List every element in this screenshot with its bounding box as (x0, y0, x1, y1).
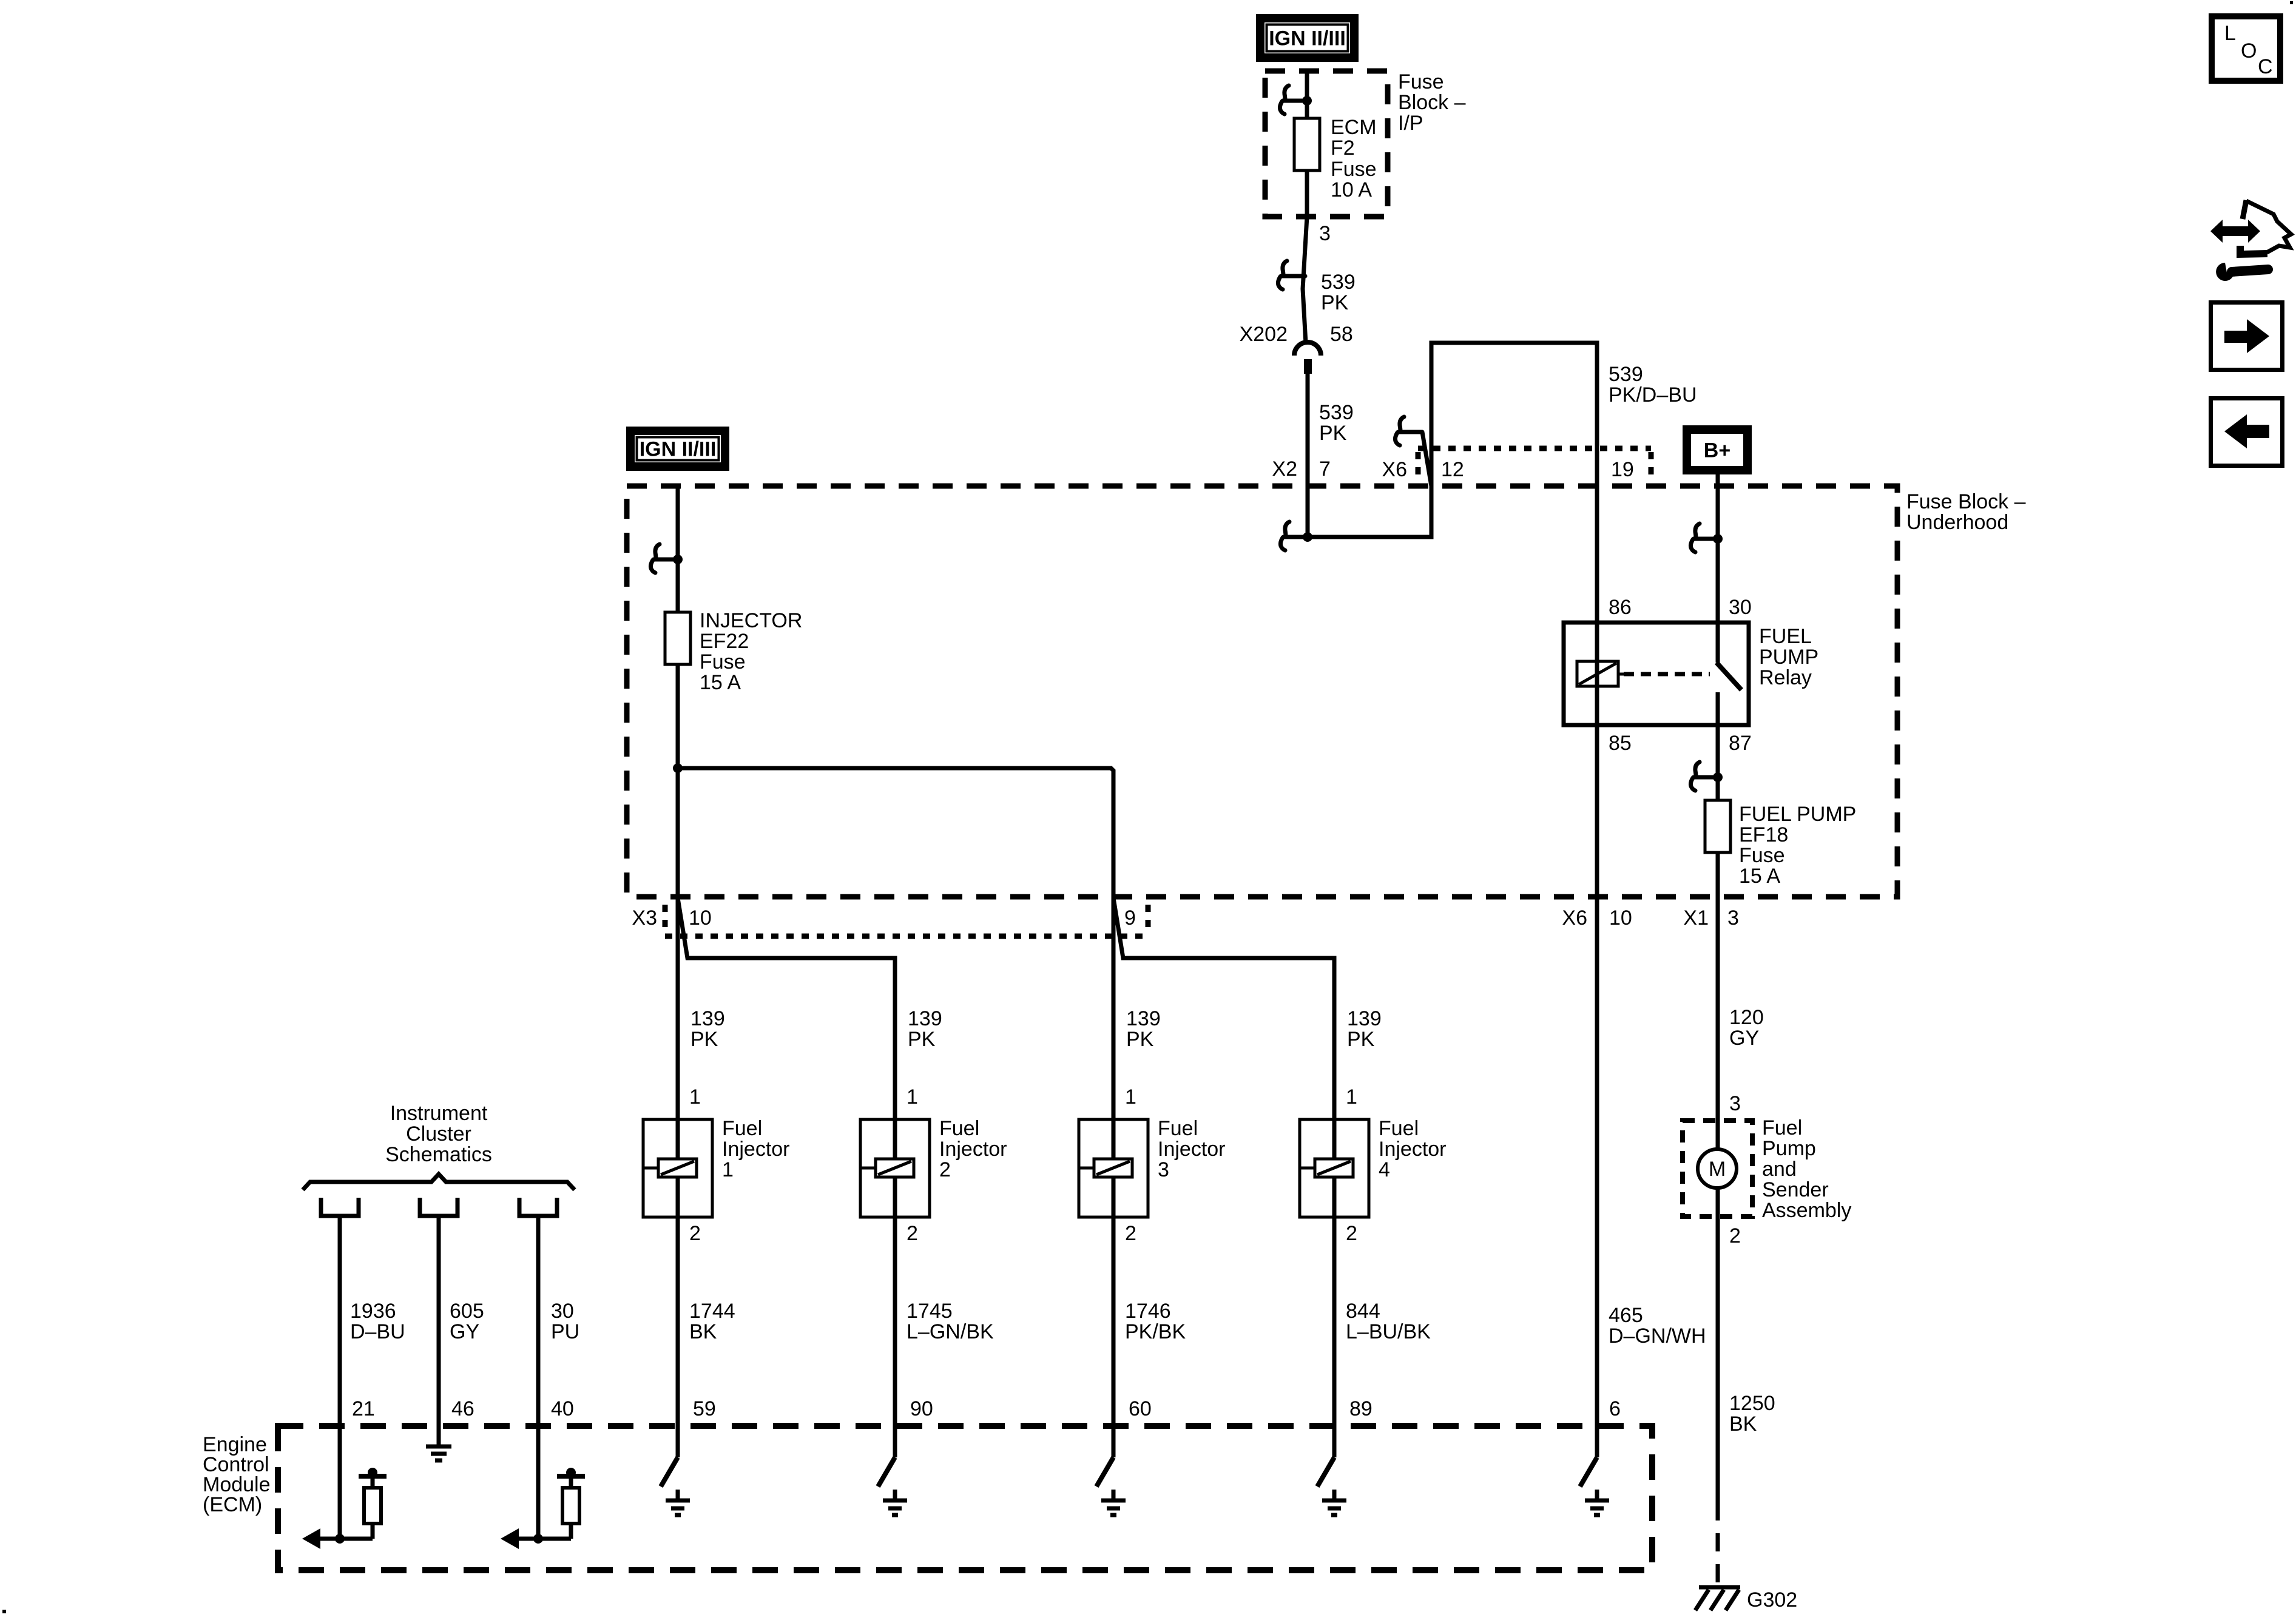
fuel injector 3 (1079, 1119, 1148, 1217)
svg-text:Fuse: Fuse (1331, 158, 1377, 181)
ground G302 (chassis) (1699, 1585, 1740, 1590)
terminal 3 to instrument cluster (519, 1198, 557, 1216)
wire X202 to junction (1306, 374, 1310, 539)
wire injector fuse down to X3 pin 10 and injector 1 (676, 664, 680, 1119)
svg-text:87: 87 (1729, 732, 1752, 755)
wire injector 1 to ECM (676, 1217, 680, 1457)
svg-text:IGN II/III: IGN II/III (1269, 27, 1346, 50)
svg-text:EF22: EF22 (700, 630, 749, 653)
svg-text:Instrument: Instrument (390, 1102, 488, 1125)
clip at injector fuse (650, 544, 678, 573)
svg-text:FUEL: FUEL (1759, 625, 1812, 648)
svg-text:GY: GY (1729, 1027, 1759, 1050)
svg-text:Fuel: Fuel (722, 1117, 762, 1140)
relay FUEL PUMP Relay box (1564, 623, 1749, 725)
svg-text:90: 90 (910, 1397, 933, 1420)
fuel injector 2 (860, 1119, 930, 1217)
wire into ECM with pull-up resistor and arrow (338, 1216, 342, 1539)
svg-text:139: 139 (1347, 1007, 1382, 1030)
svg-text:10 A: 10 A (1331, 178, 1372, 201)
svg-text:O: O (2241, 39, 2257, 62)
Fuse Block - I/P dashed box (1265, 71, 1388, 217)
svg-text:Fuse Block –: Fuse Block – (1906, 490, 2026, 513)
svg-text:FUEL PUMP: FUEL PUMP (1739, 803, 1856, 826)
wire injector 3 to ECM (1112, 1217, 1116, 1457)
power feed box IGN II/III (top) (1260, 18, 1354, 58)
svg-text:D–BU: D–BU (350, 1320, 405, 1343)
svg-text:30: 30 (551, 1300, 574, 1323)
wire relay 87 to fuse EF18 (1716, 725, 1720, 804)
svg-text:58: 58 (1330, 323, 1353, 346)
svg-text:7: 7 (1319, 457, 1331, 481)
svg-text:10: 10 (1609, 906, 1632, 930)
svg-text:9: 9 (1124, 906, 1136, 930)
svg-text:ECM: ECM (1331, 116, 1377, 139)
switch blade to ground (injector 1 driver) (661, 1457, 678, 1487)
wire relay 85 to ECM pin 6 (1595, 725, 1599, 1457)
svg-text:EF18: EF18 (1739, 823, 1788, 846)
relay coil (1577, 661, 1618, 686)
svg-text:and: and (1762, 1158, 1797, 1181)
fuse INJECTOR EF22 15A (665, 612, 690, 664)
svg-text:X6: X6 (1382, 458, 1407, 481)
ground (injector 1 low side) (676, 1490, 680, 1500)
wire fuse EF18 to fuel pump (1716, 852, 1720, 1149)
svg-text:40: 40 (551, 1397, 574, 1420)
svg-text:2: 2 (689, 1222, 701, 1245)
scan speck bottom-left (2, 1610, 6, 1613)
wire branch to X3 pin 9 (678, 768, 1113, 1119)
svg-text:1746: 1746 (1125, 1300, 1171, 1323)
connector X202 pin 58 (1294, 342, 1321, 356)
terminal 1 to instrument cluster (321, 1198, 359, 1216)
svg-text:30: 30 (1729, 596, 1752, 619)
clip on 87 wire (1690, 762, 1718, 791)
svg-text:L–GN/BK: L–GN/BK (907, 1320, 994, 1343)
relay actuation dashed link (1624, 672, 1710, 677)
svg-text:Injector: Injector (722, 1138, 790, 1161)
svg-text:46: 46 (451, 1397, 474, 1420)
svg-text:89: 89 (1349, 1397, 1373, 1420)
switch blade to ground (injector 2 driver) (878, 1457, 895, 1487)
relay switch blade (1717, 663, 1741, 690)
wire injector 2 to ECM (893, 1217, 897, 1457)
svg-text:C: C (2258, 55, 2273, 78)
svg-text:Fuel: Fuel (1379, 1117, 1419, 1140)
svg-text:3: 3 (1729, 1092, 1741, 1115)
Engine Control Module dashed box (278, 1426, 1652, 1570)
svg-text:Cluster: Cluster (406, 1122, 471, 1146)
svg-text:21: 21 (352, 1397, 375, 1420)
power feed box IGN II/III (left) (630, 431, 725, 467)
svg-text:BK: BK (1729, 1412, 1757, 1436)
svg-text:3: 3 (1158, 1158, 1169, 1181)
svg-text:2: 2 (907, 1222, 918, 1245)
svg-text:Fuel: Fuel (939, 1117, 979, 1140)
svg-text:139: 139 (690, 1007, 725, 1030)
connector X3 dotted line (665, 934, 1148, 939)
svg-text:F2: F2 (1331, 137, 1355, 160)
wire branch pin9 to injector 4 (1113, 898, 1334, 1119)
wire B+ to relay pin 30 (1716, 474, 1720, 623)
svg-text:INJECTOR: INJECTOR (700, 609, 802, 632)
svg-text:139: 139 (908, 1007, 942, 1030)
svg-text:Sender: Sender (1762, 1178, 1829, 1201)
svg-text:120: 120 (1729, 1006, 1764, 1029)
dashed wire to G302 (1716, 1502, 1720, 1587)
svg-text:X3: X3 (632, 906, 657, 930)
svg-text:1745: 1745 (907, 1300, 953, 1323)
svg-text:1: 1 (689, 1085, 701, 1109)
svg-text:1250: 1250 (1729, 1392, 1775, 1415)
switch blade to ground (injector 4 driver) (1317, 1457, 1334, 1487)
LOC icon box (2212, 16, 2280, 81)
svg-text:PK: PK (908, 1028, 936, 1051)
svg-text:1744: 1744 (689, 1300, 735, 1323)
svg-text:(ECM): (ECM) (203, 1493, 262, 1516)
connector X6 dotted line (pins 12, 19) (1418, 446, 1651, 451)
svg-text:60: 60 (1129, 1397, 1152, 1420)
svg-text:15 A: 15 A (700, 671, 741, 694)
svg-text:139: 139 (1126, 1007, 1161, 1030)
svg-text:85: 85 (1609, 732, 1632, 755)
ground (injector 3 low side) (1112, 1490, 1116, 1500)
svg-text:844: 844 (1346, 1300, 1380, 1323)
svg-text:Fuel: Fuel (1762, 1116, 1802, 1139)
svg-text:2: 2 (1125, 1222, 1136, 1245)
svg-text:PK/BK: PK/BK (1125, 1320, 1186, 1343)
svg-text:PK: PK (1126, 1028, 1154, 1051)
Fuse Block - Underhood dashed box (627, 486, 1897, 897)
wire into ECM with pull-up resistor and arrow (536, 1216, 541, 1539)
ground (pin 6 low side) (1595, 1490, 1599, 1500)
svg-text:L: L (2224, 22, 2236, 45)
svg-text:1: 1 (907, 1085, 918, 1109)
switch blade to ground (injector 3 driver) (1096, 1457, 1113, 1487)
resistor (569, 1524, 573, 1539)
wire IGN to injector fuse (676, 484, 680, 612)
svg-text:Fuse: Fuse (1398, 70, 1444, 93)
svg-text:3: 3 (1727, 906, 1739, 930)
svg-text:M: M (1709, 1158, 1726, 1181)
svg-text:4: 4 (1379, 1158, 1390, 1181)
svg-text:X1: X1 (1683, 906, 1709, 930)
clip at X6 pin 12 (1395, 417, 1422, 445)
fuel injector 4 (1300, 1119, 1369, 1217)
power feed box B+ (1687, 430, 1747, 470)
switch blade to ground (fuel pump driver) (1580, 1457, 1597, 1487)
clip at junction (1280, 522, 1308, 550)
svg-text:2: 2 (939, 1158, 951, 1181)
svg-text:Fuel: Fuel (1158, 1117, 1198, 1140)
clip on wire 539 PK (1278, 261, 1305, 289)
fuse ECM F2 10A (1294, 118, 1320, 170)
wire into X6 pin 12 (1422, 432, 1431, 486)
svg-text:X6: X6 (1562, 906, 1587, 930)
svg-text:B+: B+ (1704, 439, 1730, 462)
ground (pin 46) (437, 1426, 441, 1446)
svg-text:Schematics: Schematics (385, 1143, 492, 1166)
motor M circle (1698, 1149, 1737, 1188)
svg-text:1936: 1936 (350, 1300, 396, 1323)
svg-text:L–BU/BK: L–BU/BK (1346, 1320, 1431, 1343)
svg-text:PK: PK (1347, 1028, 1375, 1051)
svg-text:539: 539 (1321, 271, 1356, 294)
junction dot (1302, 96, 1312, 106)
svg-text:Fuse: Fuse (700, 650, 746, 673)
relay coil wire through (1595, 623, 1599, 725)
resistor (371, 1524, 375, 1539)
fuel injector 1 (643, 1119, 712, 1217)
svg-text:BK: BK (689, 1320, 717, 1343)
svg-text:X202: X202 (1240, 323, 1288, 346)
wire branch pin10 to injector 2 (678, 898, 895, 1119)
ground (injector 2 low side) (893, 1490, 897, 1500)
svg-text:GY: GY (450, 1320, 479, 1343)
svg-text:2: 2 (1346, 1222, 1357, 1245)
wire loop to relay coil (1308, 343, 1597, 623)
clip on B+ wire (1690, 524, 1718, 552)
svg-text:Injector: Injector (1158, 1138, 1226, 1161)
svg-text:Fuse: Fuse (1739, 844, 1785, 867)
back arrow icon (2211, 399, 2283, 466)
clip at fuse F2 input (1280, 86, 1307, 114)
forward arrow icon (2211, 303, 2283, 370)
tool/arrow icon (2210, 200, 2291, 281)
ground (injector 4 low side) (1332, 1490, 1337, 1500)
terminal 2 to instrument cluster (420, 1198, 458, 1216)
svg-text:G302: G302 (1747, 1588, 1797, 1612)
brace (303, 1174, 575, 1190)
svg-text:PK/D–BU: PK/D–BU (1609, 383, 1697, 407)
svg-text:1: 1 (722, 1158, 734, 1181)
wire injector 4 to ECM (1332, 1217, 1337, 1457)
svg-text:2: 2 (1729, 1224, 1741, 1247)
svg-text:1: 1 (1125, 1085, 1136, 1109)
svg-text:6: 6 (1609, 1397, 1621, 1420)
Fuel Pump and Sender Assembly dashed box (1683, 1121, 1752, 1217)
svg-text:PU: PU (551, 1320, 579, 1343)
svg-text:PUMP: PUMP (1759, 646, 1818, 669)
svg-text:19: 19 (1611, 458, 1634, 481)
fuse FUEL PUMP EF18 15A (1705, 800, 1730, 852)
svg-text:15 A: 15 A (1739, 865, 1780, 888)
svg-text:3: 3 (1319, 222, 1331, 245)
svg-text:1: 1 (1346, 1085, 1357, 1109)
svg-text:539: 539 (1319, 401, 1354, 424)
svg-text:PK: PK (690, 1028, 718, 1051)
svg-text:Block –: Block – (1398, 91, 1466, 114)
svg-text:59: 59 (693, 1397, 716, 1420)
svg-text:PK: PK (1321, 291, 1349, 314)
wire IGN to fuse F2 (1305, 71, 1309, 118)
svg-text:Injector: Injector (939, 1138, 1007, 1161)
svg-text:IGN II/III: IGN II/III (640, 438, 717, 461)
svg-text:Assembly: Assembly (1762, 1199, 1851, 1222)
svg-text:10: 10 (689, 906, 712, 930)
svg-text:12: 12 (1441, 458, 1464, 481)
wire fuel pump to G302 (1716, 1188, 1720, 1502)
svg-text:Pump: Pump (1762, 1137, 1816, 1160)
wire fuse F2 to X202, pin 3 (1303, 170, 1307, 343)
scan speck top-right (2290, 1, 2293, 4)
svg-text:Relay: Relay (1759, 666, 1812, 689)
svg-text:Injector: Injector (1379, 1138, 1447, 1161)
junction dot (673, 763, 683, 773)
svg-text:I/P: I/P (1398, 112, 1423, 135)
svg-text:86: 86 (1609, 596, 1632, 619)
svg-text:539: 539 (1609, 363, 1643, 386)
svg-text:D–GN/WH: D–GN/WH (1609, 1325, 1706, 1348)
svg-text:PK: PK (1319, 422, 1347, 445)
svg-text:Underhood: Underhood (1906, 511, 2008, 534)
svg-text:X2: X2 (1272, 457, 1297, 481)
svg-text:465: 465 (1609, 1304, 1643, 1327)
svg-text:605: 605 (450, 1300, 484, 1323)
